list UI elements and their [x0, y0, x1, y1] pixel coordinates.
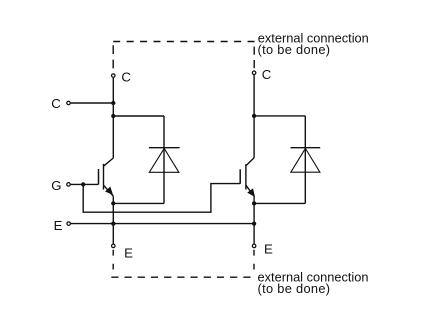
wire: E rail (E terminal across to right emitter) — [71, 223, 254, 225]
wire: C terminal lead to collector node — [71, 102, 114, 104]
junction: G node — [81, 182, 85, 186]
wire: left diode branch top (node to D1 cathode) — [113, 115, 164, 117]
dashed border bottom edge — [111, 276, 250, 278]
terminal C (right module top) — [252, 71, 256, 75]
svg-text:G: G — [51, 178, 61, 193]
svg-text:(to be done): (to be done) — [258, 281, 331, 296]
diode D1 (left freewheel diode) — [149, 148, 180, 173]
svg-text:E: E — [264, 242, 273, 257]
junction: right collector diode node — [252, 114, 256, 118]
wire: D1 vertical — [163, 116, 165, 203]
wire: right collector vertical (top C terminal down to Q2 collector) — [253, 75, 255, 158]
dashed border right edge (upper) — [253, 47, 255, 71]
wire: G terminal lead to gate — [71, 183, 99, 185]
junction: left emitter node — [111, 201, 115, 205]
junction: right E rail node — [252, 221, 256, 225]
junction: C node (left collector / C lead) — [111, 101, 115, 105]
dashed border right edge (lower) — [253, 250, 255, 270]
svg-text:C: C — [51, 96, 61, 111]
terminal E (left module bottom) — [112, 244, 116, 248]
wire: left emitter vertical (emitter node to bottom E terminal) — [112, 196, 114, 244]
junction: left diode branch node — [111, 114, 115, 118]
junction: left E rail node — [111, 221, 115, 225]
dashed border left edge (lower) — [112, 250, 114, 270]
wire: D2 vertical — [304, 116, 306, 203]
wire: left collector vertical (top C terminal down to Q1 collector) — [112, 78, 114, 158]
svg-text:E: E — [54, 218, 63, 233]
junction: right emitter node — [252, 201, 256, 205]
wire: right diode branch top (node to D2 cathode) — [254, 115, 305, 117]
svg-text:(to be done): (to be done) — [258, 42, 331, 57]
terminal C (left lead) — [67, 101, 71, 105]
terminal C (left module top) — [112, 74, 116, 78]
wire: right diode branch bottom (D2 anode to emitter node) — [254, 202, 305, 204]
wire: right emitter vertical (emitter node to bottom E terminal) — [253, 196, 255, 244]
transistor Q2 (right IGBT) — [240, 158, 254, 196]
svg-text:E: E — [124, 246, 133, 261]
wire: left diode branch bottom (D1 anode to emitter node) — [113, 202, 164, 204]
dashed border left edge (upper) — [112, 45, 114, 71]
dashed border top edge — [113, 41, 254, 43]
wire: gate link (G node down, across, up to Q2 gate) — [83, 184, 240, 213]
transistor Q1 (left IGBT) — [99, 158, 114, 196]
diode D2 (right freewheel diode) — [291, 148, 321, 173]
terminal E (right module bottom) — [252, 244, 256, 248]
terminal E (left lead) — [67, 222, 71, 226]
svg-text:C: C — [121, 70, 131, 85]
terminal G (left lead) — [67, 183, 71, 187]
svg-text:C: C — [262, 67, 272, 82]
